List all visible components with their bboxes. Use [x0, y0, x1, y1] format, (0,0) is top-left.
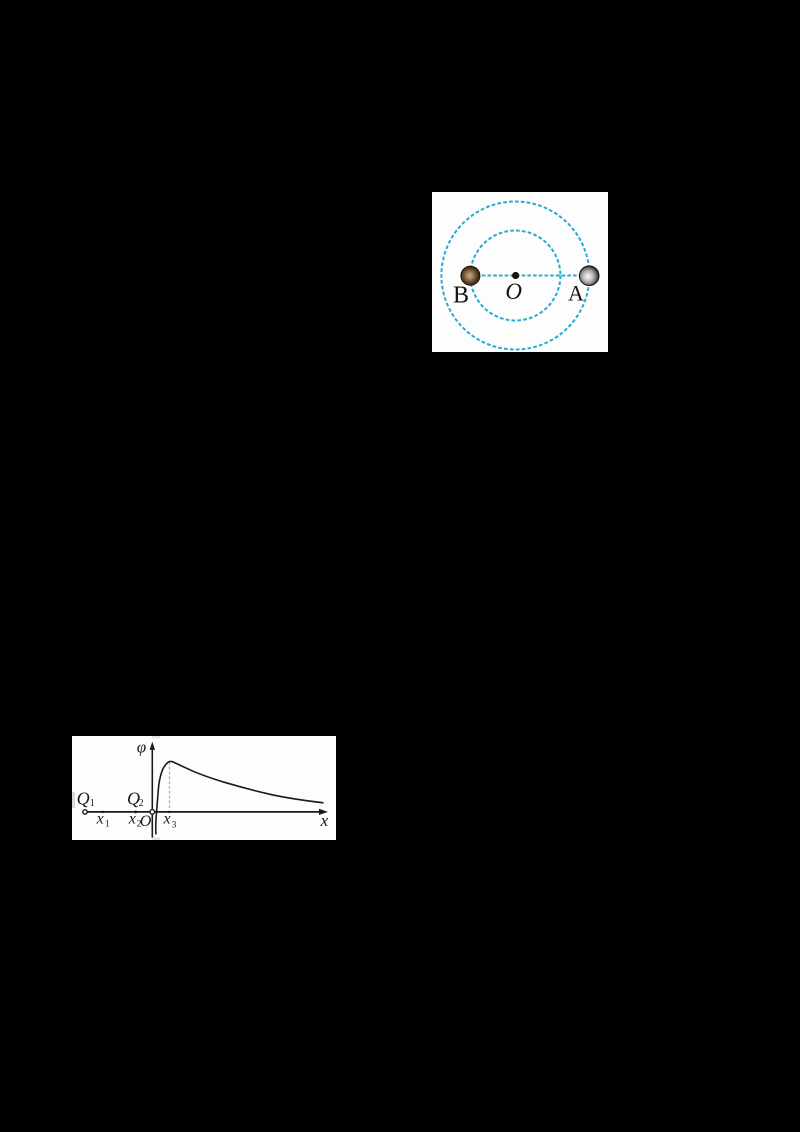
scan artifact left — [72, 792, 75, 808]
potential curve — [156, 761, 324, 834]
svg-text:O: O — [505, 279, 522, 304]
scan artifact top — [152, 736, 160, 739]
x axis arrowhead — [319, 809, 328, 815]
center dot O — [512, 272, 519, 279]
svg-text:B: B — [453, 282, 469, 308]
origin open circle — [150, 810, 155, 815]
dashed cyan drop line at x3 — [169, 762, 171, 809]
x3 dot — [168, 811, 170, 813]
Q2 dot — [134, 811, 137, 814]
x axis — [85, 811, 322, 813]
svg-text:3: 3 — [172, 820, 177, 830]
svg-text:O: O — [140, 813, 152, 830]
svg-text:x: x — [163, 811, 171, 828]
svg-text:A: A — [568, 280, 584, 305]
svg-text:1: 1 — [105, 820, 110, 830]
inner dashed orbit circle — [470, 231, 560, 321]
figure 1: two concentric dashed circular orbits with balls A and B — [432, 192, 608, 352]
svg-text:2: 2 — [139, 798, 144, 809]
svg-text:1: 1 — [90, 798, 95, 809]
figure 2: potential phi vs x graph with charges Q1 Q2 — [72, 736, 336, 840]
svg-text:x: x — [128, 811, 136, 828]
outer dashed orbit circle — [441, 202, 589, 350]
Q1 open circle on axis — [83, 810, 87, 814]
ball B (brown) — [461, 266, 480, 285]
ball A (grey) — [579, 266, 599, 286]
svg-text:Q: Q — [77, 788, 90, 808]
dashed line B-O-A — [470, 275, 589, 277]
scan artifact bottom — [152, 838, 160, 841]
svg-text:φ: φ — [137, 737, 146, 756]
phi axis arrowhead — [150, 742, 155, 750]
svg-text:x: x — [96, 811, 104, 828]
x1 dot — [101, 811, 103, 813]
phi axis — [151, 748, 153, 838]
svg-text:x: x — [320, 811, 329, 830]
